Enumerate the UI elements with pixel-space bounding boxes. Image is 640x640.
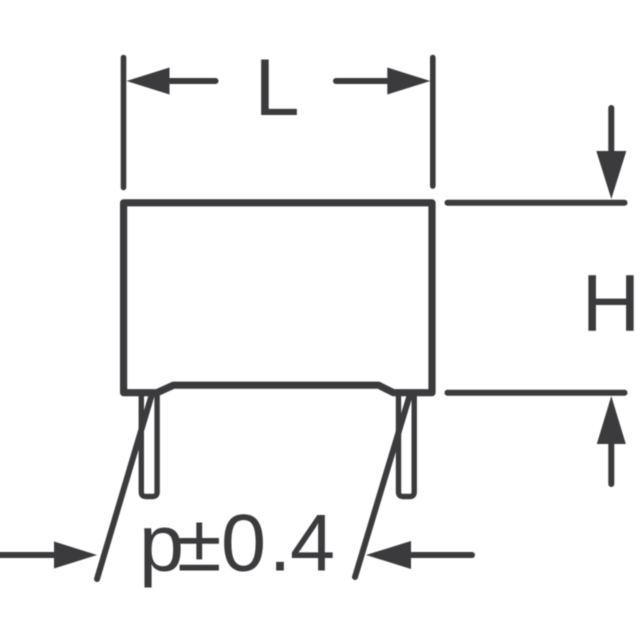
svg-text:p±0.4: p±0.4 [139,499,335,589]
left lead [141,394,157,497]
L extension line left [121,58,127,188]
L extension line right [430,58,436,187]
right lead [399,394,415,497]
p arrow right [366,541,472,569]
H arrow bottom (up) [597,396,626,484]
H extension line bottom [448,390,625,396]
p oblique line left [97,394,152,579]
svg-text:H: H [582,259,640,349]
L arrow left [127,68,216,95]
L arrow right [336,68,430,95]
capacitor body outline [124,203,432,393]
H arrow top (down) [596,108,626,199]
p arrow left [0,542,97,569]
H extension line top [448,200,625,206]
svg-text:L: L [254,43,299,133]
p oblique line right [355,396,410,577]
